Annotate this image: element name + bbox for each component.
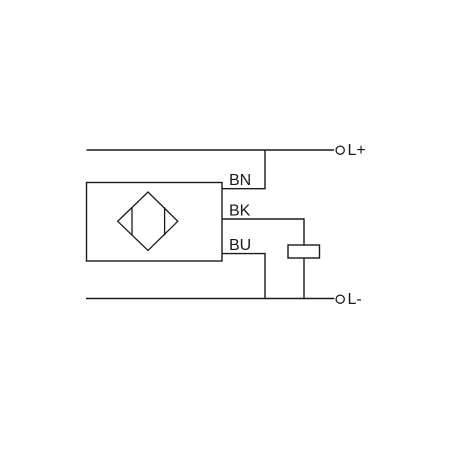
terminal L- <box>336 295 344 303</box>
svg-text:L-: L- <box>348 291 362 308</box>
wire: BU horizontal <box>222 253 265 255</box>
terminal L+ <box>336 146 344 154</box>
wire: BK vertical down to load <box>303 218 305 245</box>
wire: BK horizontal <box>222 218 304 220</box>
svg-text:BK: BK <box>229 203 251 220</box>
wire: BU vertical down to L- <box>264 253 266 299</box>
wire: BN vertical up to L+ <box>264 150 266 189</box>
svg-text:L+: L+ <box>348 142 366 159</box>
left inner chord <box>131 207 133 235</box>
proximity sensor symbol (diamond) <box>118 192 178 251</box>
wire: L+ supply rail <box>87 149 335 151</box>
right inner chord <box>164 207 166 235</box>
svg-text:BU: BU <box>229 237 251 254</box>
load resistor <box>288 245 320 258</box>
sensor U1 (proximity sensor box) <box>87 183 223 262</box>
svg-text:BN: BN <box>229 172 251 189</box>
wire: load to L- rail <box>303 258 305 299</box>
wire: L- supply rail <box>86 298 334 300</box>
wire: BN horizontal <box>222 188 265 190</box>
